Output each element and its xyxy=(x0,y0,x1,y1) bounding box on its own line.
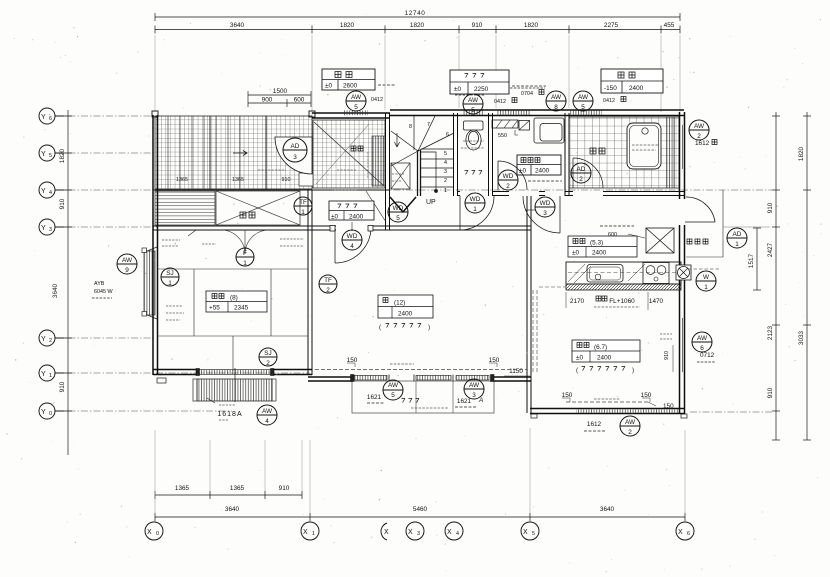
bubble AW5 toilet xyxy=(463,94,483,114)
svg-text:3640: 3640 xyxy=(225,506,240,513)
svg-text:X: X xyxy=(384,529,389,536)
grid line Y1 xyxy=(56,372,310,374)
svg-text:±0: ±0 xyxy=(454,86,462,93)
svg-text:1621: 1621 xyxy=(367,394,382,401)
svg-text:X: X xyxy=(523,529,528,536)
window marks north wall xyxy=(344,110,602,115)
wall north genkan xyxy=(312,113,390,118)
bubble WD3 xyxy=(535,197,555,217)
annotation AW2 bottom xyxy=(0,0,1,1)
counter dashed continuation xyxy=(533,287,566,374)
label box tatami xyxy=(206,291,267,312)
label oshiire xyxy=(240,212,246,218)
svg-text:AW: AW xyxy=(122,257,133,264)
svg-text:X: X xyxy=(303,529,308,536)
label flooring living xyxy=(379,324,430,332)
svg-text:Y: Y xyxy=(41,225,46,232)
annotation AW2 right 1612 xyxy=(695,140,717,148)
svg-text:910: 910 xyxy=(59,198,66,209)
svg-text:2: 2 xyxy=(444,178,447,184)
svg-text:8: 8 xyxy=(409,124,412,130)
svg-text:5: 5 xyxy=(444,151,447,157)
stair center divider xyxy=(418,150,421,196)
door arc kitchen back door xyxy=(685,197,715,222)
label box kitchen xyxy=(568,236,637,257)
annotation tatami right xyxy=(280,239,304,246)
bathtub xyxy=(627,123,661,169)
svg-text:910: 910 xyxy=(282,177,291,183)
door arc WD1 toilet xyxy=(460,196,494,230)
svg-text:Y: Y xyxy=(41,371,46,378)
back door step outline xyxy=(686,190,770,269)
svg-text:±0: ±0 xyxy=(325,83,333,90)
bubble SJ1 xyxy=(161,268,179,286)
svg-text:2: 2 xyxy=(628,429,632,436)
svg-text:X: X xyxy=(408,529,413,536)
svg-text:AYB: AYB xyxy=(94,281,105,287)
kitchen window dims xyxy=(566,292,664,310)
label box washroom xyxy=(517,155,562,181)
bubble texts xyxy=(122,94,742,436)
svg-text:1517: 1517 xyxy=(748,253,755,268)
svg-text:UP: UP xyxy=(426,199,436,206)
svg-text:AW: AW xyxy=(694,123,705,130)
svg-text:2: 2 xyxy=(579,176,583,183)
svg-text:3: 3 xyxy=(444,169,447,175)
svg-text:1820: 1820 xyxy=(798,146,805,161)
wall tatami south xyxy=(153,370,312,375)
svg-text:SJ: SJ xyxy=(166,270,173,277)
svg-text:X: X xyxy=(678,529,683,536)
svg-text:5: 5 xyxy=(391,392,395,399)
gas meter xyxy=(676,265,691,280)
svg-text:1365: 1365 xyxy=(230,485,245,492)
svg-text:1470: 1470 xyxy=(649,298,664,305)
svg-text:): ) xyxy=(428,324,430,331)
svg-text:12740: 12740 xyxy=(405,10,426,17)
opening: terrace sliding doors living xyxy=(351,375,495,382)
washroom shelf xyxy=(492,120,518,128)
svg-text:0704: 0704 xyxy=(521,91,533,97)
svg-text:1: 1 xyxy=(301,209,305,216)
porch tiled floor xyxy=(155,116,312,189)
wall tatami right xyxy=(308,190,312,375)
svg-text:4: 4 xyxy=(265,418,269,425)
top annotation texts xyxy=(455,88,626,105)
bubble WD2 xyxy=(498,170,518,190)
bubble AW5 genkan xyxy=(346,91,366,111)
svg-text:(12): (12) xyxy=(394,300,405,307)
step tatami south xyxy=(157,378,166,383)
stair storage dims xyxy=(392,174,404,181)
svg-text:AW: AW xyxy=(697,335,708,342)
svg-text:900: 900 xyxy=(262,97,273,104)
dimension line 1517 xyxy=(756,228,758,290)
svg-text:3: 3 xyxy=(417,531,420,537)
svg-text:2: 2 xyxy=(49,338,52,344)
svg-text:SJ: SJ xyxy=(264,350,271,357)
svg-text:910: 910 xyxy=(59,381,66,392)
stair treads xyxy=(421,149,454,187)
opening: sliding doors tatami deck xyxy=(196,368,274,402)
svg-text:2275: 2275 xyxy=(604,22,619,29)
svg-text:6: 6 xyxy=(446,132,449,138)
wall washroom/bath xyxy=(565,113,569,196)
grid line Y6 xyxy=(56,115,156,117)
svg-text:WD: WD xyxy=(503,173,514,180)
svg-text:5: 5 xyxy=(354,104,358,111)
genkan tiled floor xyxy=(299,97,385,188)
dimension line bottom main xyxy=(155,516,685,518)
svg-text:6: 6 xyxy=(49,116,52,122)
fusuma arcs closet xyxy=(221,230,269,254)
grid line Y0 right extension xyxy=(690,411,772,413)
svg-text:455: 455 xyxy=(664,22,675,29)
svg-text:0: 0 xyxy=(49,411,52,417)
label toilet xyxy=(465,171,483,175)
wall living right xyxy=(527,230,531,377)
svg-text:2345: 2345 xyxy=(234,305,249,312)
label 1612 dining south xyxy=(584,421,606,431)
bubble TF1 closet xyxy=(294,197,312,215)
svg-text:1500: 1500 xyxy=(273,88,288,95)
grid line Y0 xyxy=(56,410,232,412)
svg-text:1621: 1621 xyxy=(457,398,472,405)
svg-text:1150: 1150 xyxy=(509,368,523,375)
svg-text:FL+1060: FL+1060 xyxy=(609,298,635,305)
annotation tatami left inner xyxy=(166,306,184,320)
extension lines from top dims xyxy=(155,35,680,118)
closet oshiire xyxy=(216,191,300,225)
svg-text:910: 910 xyxy=(767,387,774,398)
curtain box right wall xyxy=(660,334,673,372)
svg-text:(8): (8) xyxy=(230,295,238,302)
svg-text:4: 4 xyxy=(456,531,459,537)
svg-text:0412: 0412 xyxy=(371,97,383,103)
svg-text:910: 910 xyxy=(664,351,670,360)
opening: dining east window AW6 xyxy=(681,318,685,372)
porch corner posts xyxy=(152,111,315,117)
svg-text:TF: TF xyxy=(299,199,307,206)
svg-text:910: 910 xyxy=(767,202,774,213)
svg-text:X: X xyxy=(147,529,152,536)
svg-text:AD: AD xyxy=(291,143,300,150)
svg-text:-150: -150 xyxy=(604,85,617,92)
svg-text:6: 6 xyxy=(700,345,704,352)
void slash hall xyxy=(366,191,386,222)
svg-text:WD: WD xyxy=(540,200,551,207)
svg-text:AW: AW xyxy=(578,94,589,101)
wall dining south xyxy=(530,409,685,414)
svg-text:1: 1 xyxy=(444,188,447,194)
svg-text:(6.7): (6.7) xyxy=(594,344,607,351)
terrace xyxy=(352,381,494,413)
svg-text:4: 4 xyxy=(49,190,52,196)
svg-text:4: 4 xyxy=(350,243,354,250)
svg-text:AW: AW xyxy=(351,94,362,101)
leader hall label xyxy=(351,222,353,231)
dimension text top row xyxy=(230,22,675,29)
svg-text:1820: 1820 xyxy=(340,22,355,29)
wall porch bottom / closet top xyxy=(153,189,390,191)
washing machine pan xyxy=(534,118,564,143)
svg-text:WD: WD xyxy=(347,233,358,240)
label box bath xyxy=(601,69,663,93)
grid line Y5 xyxy=(56,152,156,154)
opening: bath east window AW2 xyxy=(681,125,685,169)
svg-text:(: ( xyxy=(379,324,382,331)
grid line Y4 xyxy=(56,189,772,191)
svg-text:±0: ±0 xyxy=(576,355,584,362)
svg-text:5: 5 xyxy=(396,215,400,222)
svg-text:3033: 3033 xyxy=(798,330,805,345)
svg-text:AW: AW xyxy=(388,382,399,389)
svg-text:1612: 1612 xyxy=(587,421,602,428)
svg-text:3640: 3640 xyxy=(600,506,615,513)
svg-text:600: 600 xyxy=(294,97,305,104)
svg-text:1: 1 xyxy=(49,373,52,379)
bubble AW2 dining s xyxy=(620,416,640,436)
dimension 550 xyxy=(498,130,518,139)
bubble AW3 terrace xyxy=(464,379,484,399)
svg-text:2600: 2600 xyxy=(343,83,358,90)
wall stair right / toilet left xyxy=(454,113,458,196)
svg-text:AD: AD xyxy=(733,231,742,238)
svg-text:3: 3 xyxy=(293,154,297,161)
svg-text:2: 2 xyxy=(266,360,270,367)
annotation genkan step xyxy=(334,152,373,190)
stove xyxy=(643,263,669,284)
svg-text:3640: 3640 xyxy=(230,22,245,29)
svg-text:910: 910 xyxy=(472,22,483,29)
annotation tokonoma xyxy=(162,230,216,246)
door arc WD3 kitchen xyxy=(523,196,560,233)
sink xyxy=(587,265,623,283)
bay window west xyxy=(142,247,157,319)
svg-text:2400: 2400 xyxy=(592,250,607,257)
svg-text:AW: AW xyxy=(551,94,562,101)
svg-text:Y: Y xyxy=(41,151,46,158)
svg-text:3640: 3640 xyxy=(52,283,59,298)
svg-text:6045 W: 6045 W xyxy=(94,289,113,295)
svg-text:2400: 2400 xyxy=(535,168,550,175)
svg-text:2400: 2400 xyxy=(349,214,364,221)
svg-text:1: 1 xyxy=(312,531,315,537)
door arc WD4 hall-living xyxy=(330,226,373,264)
stair understorage xyxy=(391,163,410,189)
dining south jamb feet xyxy=(531,414,537,418)
annotation AW6 right xyxy=(697,352,715,362)
dimension porch 1500/900/600 xyxy=(248,91,311,107)
door arc AD2 bath xyxy=(573,158,603,188)
grid bubbles X0..X6 xyxy=(145,522,694,540)
dimension line 1365/1365/910 xyxy=(155,494,302,496)
svg-text:): ) xyxy=(632,367,634,374)
dimension text right xyxy=(748,146,805,398)
svg-text:±0: ±0 xyxy=(331,214,339,221)
curtain box dining xyxy=(562,392,674,410)
wall kitchen west upper xyxy=(527,196,531,230)
drainer diagonals xyxy=(568,264,645,283)
wall genkan right / stair left xyxy=(386,113,390,230)
svg-text:5: 5 xyxy=(532,531,535,537)
svg-text:0712: 0712 xyxy=(700,352,715,359)
dimension line left vertical xyxy=(67,110,69,455)
wall north toilet-bath xyxy=(390,110,684,116)
label box dining xyxy=(572,340,640,362)
svg-text:1: 1 xyxy=(735,241,739,248)
toilet annotations xyxy=(461,141,484,148)
svg-text:3: 3 xyxy=(49,227,52,233)
wall living south xyxy=(308,377,531,381)
label box living xyxy=(378,295,433,318)
bubble AW6 dining xyxy=(692,332,712,352)
bubble TF2 xyxy=(319,275,337,293)
svg-text:1365: 1365 xyxy=(176,177,188,183)
bubble W1 kitchen xyxy=(696,271,716,291)
bubble AW5 terrace xyxy=(383,380,403,400)
wall closet bottom / tatami top xyxy=(153,226,531,230)
label 1150 left of dining xyxy=(504,368,530,376)
label floor storage xyxy=(600,226,645,238)
svg-text:1365: 1365 xyxy=(232,177,244,183)
stair winder edges xyxy=(413,116,415,150)
svg-text:0: 0 xyxy=(156,531,159,537)
grid line Y2 xyxy=(56,337,156,339)
svg-text:1618A: 1618A xyxy=(217,411,242,418)
dimension line overall 12740 xyxy=(155,16,680,18)
svg-text:AD: AD xyxy=(577,166,586,173)
bubble SJ2 xyxy=(259,348,277,366)
svg-text:2250: 2250 xyxy=(474,86,489,93)
svg-text:150: 150 xyxy=(663,403,674,410)
laundry chute box xyxy=(519,121,530,131)
svg-text:(: ( xyxy=(576,367,579,374)
opening: dining south windows xyxy=(576,410,680,414)
wall south of wash/bath/kitchen north band xyxy=(457,192,684,196)
svg-text:5: 5 xyxy=(581,104,585,111)
door arc AD3 genkan xyxy=(275,137,312,174)
extension lines bottom xyxy=(155,428,685,513)
dimension line top segments xyxy=(155,29,680,31)
svg-text:1820: 1820 xyxy=(524,22,539,29)
svg-text:Y: Y xyxy=(41,336,46,343)
svg-text:WD: WD xyxy=(393,205,404,212)
svg-text:WD: WD xyxy=(470,196,481,203)
svg-text:5: 5 xyxy=(471,107,475,114)
svg-text:AW: AW xyxy=(468,97,479,104)
bubble WD1 xyxy=(465,193,485,213)
svg-text:2170: 2170 xyxy=(570,298,585,305)
bubble AW8 wash xyxy=(546,91,566,111)
tatami mat lines xyxy=(157,268,308,270)
annotation kitchen back door xyxy=(687,239,708,244)
stair climb line xyxy=(435,190,438,193)
bubble WD5 xyxy=(388,202,408,222)
svg-text:3: 3 xyxy=(472,392,476,399)
svg-text:2: 2 xyxy=(506,183,510,190)
svg-text:Y: Y xyxy=(41,188,46,195)
svg-text:2427: 2427 xyxy=(767,242,774,257)
svg-text:7: 7 xyxy=(427,122,430,128)
floor storage box xyxy=(646,228,674,253)
bubble F1 tatami xyxy=(236,248,254,266)
fold door WD5 xyxy=(390,197,416,212)
svg-text:3: 3 xyxy=(543,210,547,217)
wall west exterior xyxy=(153,115,158,375)
svg-text:Y: Y xyxy=(41,409,46,416)
tokonoma board hatch xyxy=(155,191,215,225)
svg-text:5460: 5460 xyxy=(413,506,428,513)
counter xyxy=(566,262,681,284)
svg-text:+55: +55 xyxy=(209,305,220,312)
label box genkan xyxy=(322,69,396,90)
dimension text left xyxy=(52,148,66,392)
svg-text:W: W xyxy=(703,274,710,281)
dimension line right inner xyxy=(775,112,777,440)
svg-text:1820: 1820 xyxy=(410,22,425,29)
veranda deck 1618A xyxy=(193,379,276,401)
svg-text:2400: 2400 xyxy=(629,85,644,92)
svg-text:8: 8 xyxy=(554,104,558,111)
svg-text:1: 1 xyxy=(473,206,477,213)
svg-text:1820: 1820 xyxy=(59,148,66,163)
svg-text:1: 1 xyxy=(243,260,247,267)
svg-text:2400: 2400 xyxy=(597,355,612,362)
svg-text:4: 4 xyxy=(444,160,447,166)
bubble AW5 bath xyxy=(573,91,593,111)
label box toilet xyxy=(450,70,546,94)
svg-text:AW: AW xyxy=(469,382,480,389)
bubble AD3 porch xyxy=(283,138,307,162)
wall east exterior xyxy=(680,112,685,414)
label box hall xyxy=(329,201,374,221)
wall dining west xyxy=(527,377,531,413)
svg-text:1612: 1612 xyxy=(695,140,710,147)
svg-text:1: 1 xyxy=(168,280,172,287)
svg-text:AW: AW xyxy=(625,419,636,426)
bubble AD1 east xyxy=(727,228,747,248)
svg-text:F: F xyxy=(243,250,247,257)
label flooring dining xyxy=(576,367,634,375)
terrace labels xyxy=(367,394,483,408)
svg-text:(5.3): (5.3) xyxy=(590,240,603,247)
svg-text:TF: TF xyxy=(324,277,332,284)
grid bubbles Y6..Y0 xyxy=(39,108,64,419)
bathroom tiled floor xyxy=(569,117,679,188)
annotation deck xyxy=(207,398,243,420)
wall toilet right xyxy=(489,113,493,196)
bubble AW9 west xyxy=(117,254,137,274)
stair up arrow xyxy=(394,133,399,147)
svg-text:550: 550 xyxy=(498,133,507,139)
svg-text:X: X xyxy=(447,529,452,536)
svg-text:Y: Y xyxy=(41,114,46,121)
svg-text:±0: ±0 xyxy=(572,250,580,257)
bubble AW2 east xyxy=(689,120,709,140)
svg-text:910: 910 xyxy=(279,485,290,492)
dimension line right outer xyxy=(806,112,808,440)
bubble AW4 deck xyxy=(257,405,277,425)
bubble WD4 xyxy=(342,230,362,250)
grid line Y3 xyxy=(56,226,158,228)
counter centerline xyxy=(568,272,680,274)
svg-text:1: 1 xyxy=(704,284,708,291)
svg-text:2123: 2123 xyxy=(767,325,774,340)
svg-text:0412: 0412 xyxy=(494,99,506,105)
svg-text:9: 9 xyxy=(125,267,129,274)
svg-text:2: 2 xyxy=(697,133,701,140)
